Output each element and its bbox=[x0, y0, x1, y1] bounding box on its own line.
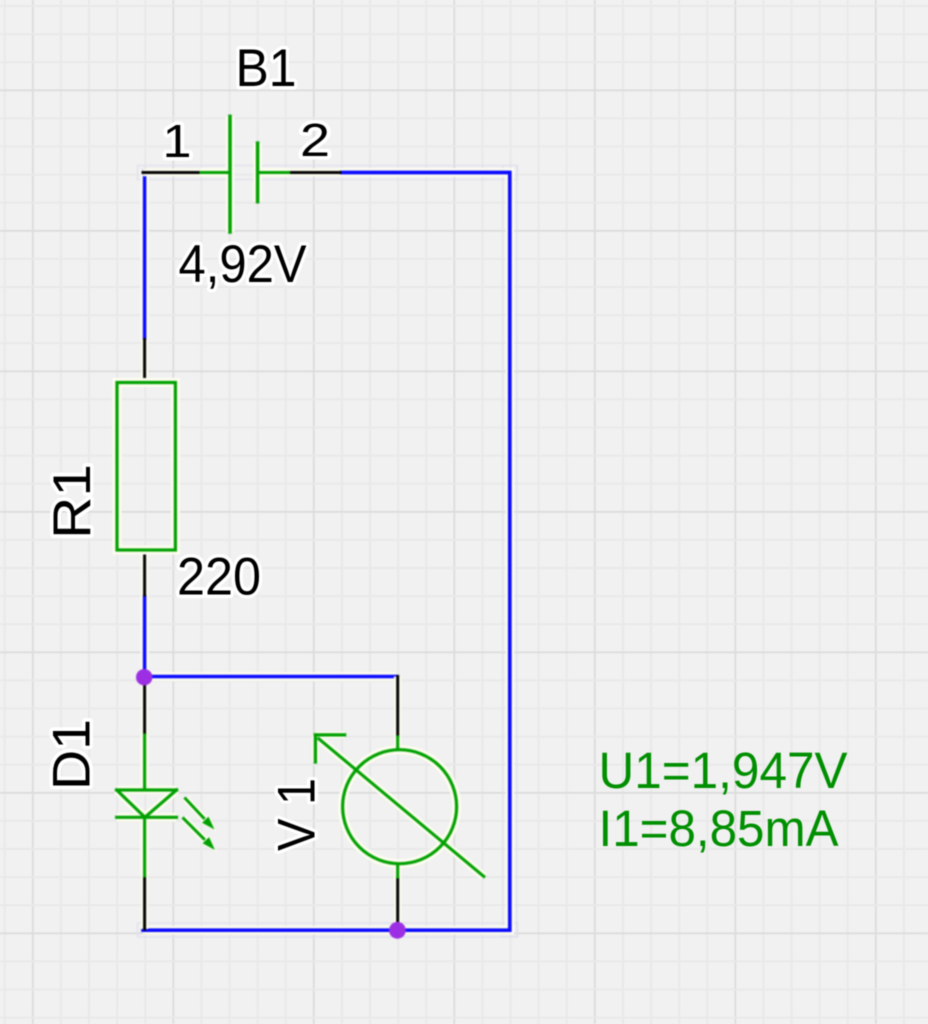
wire: LED top black lead bbox=[141, 681, 149, 735]
svg-text:V 1: V 1 bbox=[268, 778, 327, 851]
wire: resistor bottom black lead bbox=[141, 550, 149, 595]
wire: battery pin2 black lead bbox=[289, 169, 340, 177]
svg-text:B1: B1 bbox=[236, 39, 297, 98]
svg-text:2: 2 bbox=[300, 114, 330, 166]
svg-text:D1: D1 bbox=[43, 719, 102, 790]
svg-text:4,92V: 4,92V bbox=[179, 235, 308, 294]
wire: resistor top black lead bbox=[141, 340, 149, 384]
wire: middle horizontal blue node A to voltmeter bbox=[145, 672, 397, 681]
node B junction dot bbox=[389, 922, 406, 939]
wire bbox top bbox=[138, 166, 518, 180]
wire bbox bottom bbox=[138, 923, 518, 937]
node A junction dot bbox=[136, 669, 152, 685]
voltmeter V1 symbol bbox=[315, 735, 483, 877]
svg-text:U1=1,947V: U1=1,947V bbox=[599, 742, 848, 799]
battery B1 symbol bbox=[201, 116, 289, 232]
svg-text:1: 1 bbox=[163, 115, 192, 167]
LED D1 symbol bbox=[117, 735, 177, 876]
wire: left vertical blue top-left corner to resistor bbox=[140, 171, 149, 340]
LED D1 emission arrow 2 bbox=[184, 819, 215, 851]
wire: left vertical blue resistor to node A bbox=[140, 595, 149, 677]
wire: voltmeter bottom black lead bbox=[394, 877, 402, 930]
wire: voltmeter top black lead bbox=[394, 677, 402, 738]
wire: battery pin1 black lead bbox=[143, 169, 201, 177]
svg-text:I1=8,85mA: I1=8,85mA bbox=[599, 800, 839, 857]
wire: blue run from battery via top-right corner to bottom-left bbox=[143, 173, 510, 931]
wire bbox right bbox=[503, 166, 517, 937]
svg-text:220: 220 bbox=[177, 548, 261, 607]
LED D1 emission arrow 1 bbox=[186, 799, 215, 830]
resistor R1 body bbox=[117, 383, 175, 551]
svg-text:R1: R1 bbox=[43, 464, 102, 539]
wire: LED bottom black lead bbox=[141, 876, 149, 929]
